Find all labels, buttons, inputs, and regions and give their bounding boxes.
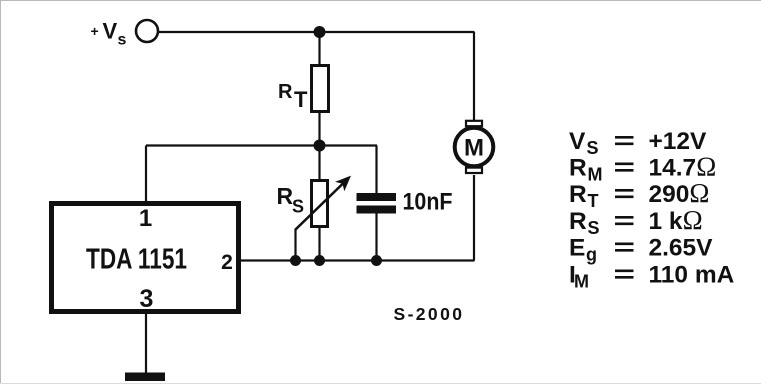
value row I_M	[569, 261, 735, 291]
junction dot wiper on rail	[290, 255, 301, 266]
svg-text:+: +	[91, 23, 99, 39]
terminal +Vs circle	[136, 20, 158, 42]
wire top rail from +Vs terminal to motor branch	[159, 31, 475, 33]
svg-text:R: R	[278, 81, 293, 103]
wire R_T bottom lead	[318, 111, 320, 146]
svg-text:=: =	[614, 208, 636, 235]
resistor R_T	[312, 66, 329, 112]
svg-text:S-2000: S-2000	[394, 304, 465, 324]
svg-text:S: S	[588, 218, 600, 238]
svg-text:2.65V: 2.65V	[649, 235, 714, 262]
value row R_T	[569, 178, 709, 211]
wire R_S top lead	[318, 146, 320, 182]
svg-text:=: =	[614, 235, 636, 262]
R_S arrowhead	[335, 176, 351, 192]
svg-text:M: M	[464, 135, 484, 162]
svg-text:2: 2	[221, 251, 233, 274]
IC U1 TDA 1151	[52, 204, 239, 312]
capacitor C1 top plate	[357, 193, 397, 201]
resistor R_S (variable)	[312, 181, 328, 227]
capacitor C1 bottom plate	[357, 206, 397, 214]
svg-text:290Ω: 290Ω	[649, 178, 710, 208]
svg-text:S: S	[587, 138, 599, 158]
value row V_S	[569, 128, 707, 158]
svg-text:M: M	[588, 165, 603, 185]
wire motor top lead	[473, 32, 475, 121]
motor M1 body	[455, 128, 494, 167]
svg-text:R: R	[277, 183, 294, 209]
svg-text:S: S	[292, 197, 304, 217]
svg-text:110 mA: 110 mA	[649, 261, 735, 288]
svg-text:TDA 1151: TDA 1151	[86, 244, 187, 276]
svg-text:10nF: 10nF	[403, 189, 453, 216]
junction dot capacitor bottom on rail	[371, 255, 382, 266]
svg-text:V: V	[103, 19, 118, 44]
value row R_M	[569, 152, 716, 185]
svg-text:R: R	[569, 208, 587, 235]
wire R_S bottom lead	[318, 227, 320, 261]
svg-text:R: R	[569, 181, 587, 208]
svg-text:=: =	[614, 261, 636, 288]
junction dot R_S bottom on rail	[314, 255, 325, 266]
wire pin 3 to ground	[145, 312, 147, 374]
wire R_T top lead	[318, 32, 320, 66]
svg-text:3: 3	[140, 285, 154, 313]
label R_S	[277, 183, 305, 217]
ground	[125, 373, 165, 382]
wire motor bottom lead	[473, 175, 475, 261]
svg-text:E: E	[569, 235, 585, 262]
label R_T	[278, 81, 308, 112]
svg-text:V: V	[569, 128, 586, 155]
svg-text:=: =	[614, 155, 636, 182]
wire capacitor bottom lead	[375, 213, 377, 261]
svg-text:1: 1	[139, 205, 152, 232]
svg-text:14.7Ω: 14.7Ω	[649, 152, 717, 182]
motor M1 terminal bottom	[466, 168, 482, 173]
motor M1 terminal top	[466, 121, 482, 126]
decorative border omitted from labels	[0, 0, 761, 2]
svg-text:M: M	[574, 271, 589, 291]
wire pin 2 bottom rail	[240, 259, 475, 261]
wire capacitor top lead	[375, 146, 377, 195]
svg-text:1 kΩ: 1 kΩ	[649, 205, 703, 235]
junction dot node A	[314, 140, 326, 152]
svg-text:T: T	[588, 191, 599, 211]
svg-text:g: g	[586, 245, 597, 265]
R_S wiper tail vertical	[294, 230, 296, 261]
junction dot top node	[314, 26, 326, 38]
R_S wiper arrow diagonal	[295, 183, 344, 231]
svg-text:=: =	[614, 181, 636, 208]
value row E_g	[569, 235, 713, 265]
svg-text:=: =	[614, 128, 636, 155]
svg-text:R: R	[569, 155, 587, 182]
label +Vs	[91, 19, 127, 49]
wire pin 1 vertical	[145, 146, 147, 204]
svg-text:s: s	[118, 32, 127, 49]
wire node A horizontal (pin1 / R_S / C top rail)	[146, 144, 377, 146]
value row R_S	[569, 205, 703, 238]
parameter table	[569, 128, 735, 291]
svg-text:T: T	[294, 87, 308, 112]
